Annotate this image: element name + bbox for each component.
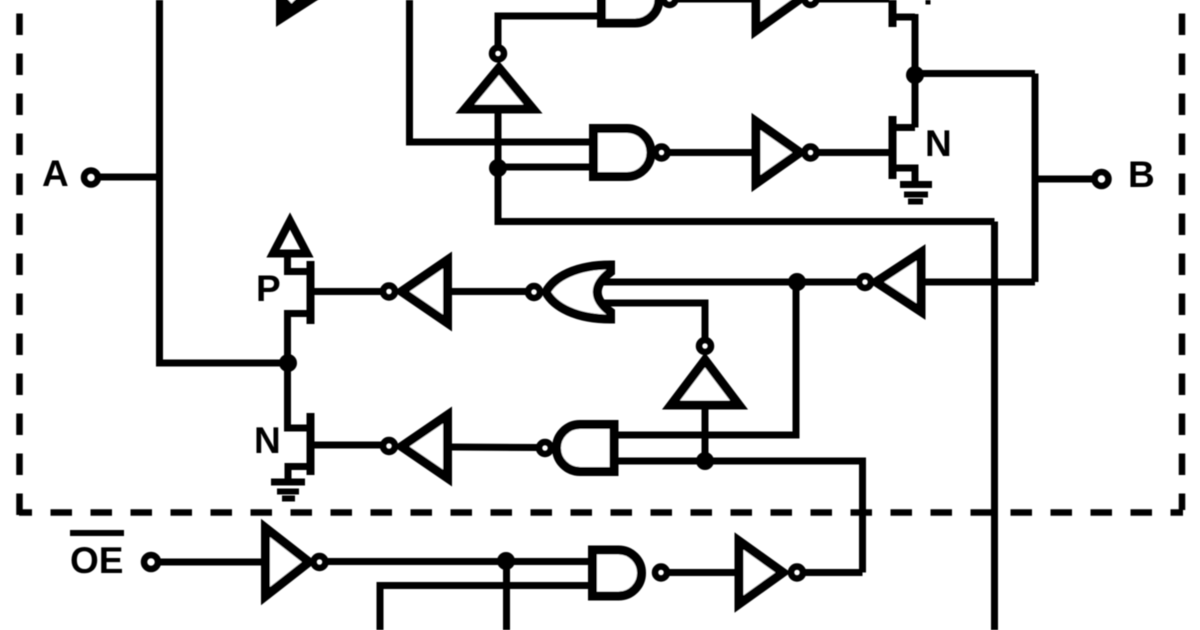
wire to NAND G3 top input <box>406 139 594 146</box>
wire B column vertical <box>1032 74 1039 283</box>
buffer remnant above (cut off) filled wedge <box>277 0 319 25</box>
buffer U6 output bubble <box>805 0 817 5</box>
wire P gate lead <box>314 288 381 295</box>
NAND gate G5 (OE path) body <box>593 550 642 596</box>
junction U2 input on NAND lower feed <box>696 452 714 470</box>
buffer remnant white interior notch <box>288 0 297 4</box>
dashed box border left side <box>16 14 23 516</box>
wire U4 output up and right to top NAND <box>498 16 600 45</box>
node OE terminal bubble <box>144 555 158 569</box>
transistor P (B-side) label remnant <box>926 0 931 5</box>
NAND gate G4 output bubble <box>664 0 676 5</box>
NOR gate G1 (faces left) output bubble <box>528 286 540 298</box>
wire G2 bottom input from OE loop <box>614 461 863 573</box>
transistor P (B-side) gate bar (cut off) <box>889 0 897 27</box>
wire G1 top input from junction <box>600 279 858 286</box>
wire long vertical B-side feed to bottom <box>991 222 998 630</box>
junction B-side common node <box>906 66 924 84</box>
NAND gate G3 (A to B path) body <box>594 129 652 177</box>
wire U6 output to P(B) gate <box>819 0 889 3</box>
inverter U1 triangle <box>402 260 448 323</box>
wire A terminal to input column <box>98 174 162 181</box>
svg-text:N: N <box>925 123 952 164</box>
dashed box border right side <box>1179 14 1186 511</box>
VCC arrow symbol above P transistor <box>273 221 307 254</box>
wire node down to N(B) drain <box>896 75 915 128</box>
wire VCC arrow stem to P source <box>284 253 310 272</box>
wire top-left vertical feed <box>406 0 413 142</box>
svg-text:P: P <box>256 268 281 309</box>
wire long feed down and right to B-side vertical <box>498 168 995 222</box>
inverter U7 (B to A path, faces left) bubble <box>859 276 871 288</box>
buffer U8 (OE, faces right) triangle <box>266 528 310 596</box>
wire junction down (cut off) <box>503 561 510 630</box>
wire A input vertical column <box>156 0 163 363</box>
wire U1 input from NOR output <box>450 288 527 295</box>
wire U7 input from B column <box>923 279 1035 286</box>
buffer U2 (up-pointing, middle) bubble <box>699 340 711 352</box>
junction U4 input node <box>489 159 507 177</box>
buffer U9 output bubble <box>791 567 803 579</box>
wire U3 input from NAND output <box>450 444 538 452</box>
wire G5 output to buffer U9 <box>668 569 741 576</box>
wire to NAND G3 bottom input <box>498 164 594 171</box>
inverter U3 triangle <box>402 415 448 478</box>
svg-text:N: N <box>254 420 281 461</box>
buffer U4 (up-pointing, top) bubble <box>492 48 504 60</box>
wire G2 top input from junction column <box>614 282 796 435</box>
svg-text:B: B <box>1128 154 1155 195</box>
wire to B terminal <box>1035 176 1093 183</box>
wire OE terminal to buffer U8 <box>158 559 266 566</box>
svg-text:A: A <box>42 153 69 194</box>
wire U9 output to G2 lower feed <box>805 569 863 576</box>
dashed box border bottom side <box>19 509 1183 516</box>
transistor N (B-side) channel bar <box>889 116 897 179</box>
node A terminal bubble <box>84 171 98 185</box>
inverter U3 (drives N gate, faces left) bubble <box>383 440 395 452</box>
buffer U9 (faces right) triangle <box>739 541 783 604</box>
NAND gate G4 (top, cut off) body <box>602 0 660 23</box>
transistor N (A-side) channel bar <box>307 413 315 475</box>
wire node to B column <box>915 70 1035 77</box>
wire P(B) drain lead down to node <box>912 14 919 75</box>
wire G4 output to buffer U6 <box>676 0 760 3</box>
wire N source stub to ground <box>288 467 310 482</box>
wire A column to pass-FET node <box>156 360 288 367</box>
ground symbol (A-side) <box>271 479 305 486</box>
wire U8 output to NAND G5 <box>328 558 596 565</box>
node OE label overbar <box>70 530 124 536</box>
buffer U2 triangle <box>671 360 739 405</box>
buffer U8 output bubble <box>314 556 326 568</box>
wire N drain stub <box>284 425 310 432</box>
inverter U7 triangle <box>876 253 921 312</box>
junction A pass-FET common node <box>279 354 297 372</box>
wire U5 output to N(B) gate <box>819 149 889 156</box>
wire U2 input vertical <box>702 409 709 461</box>
wire U4 input vertical <box>495 113 502 168</box>
buffer U4 triangle <box>465 68 533 109</box>
junction on B-side feedback at NOR input <box>788 273 806 291</box>
wire N(B) source stub to ground <box>896 168 915 184</box>
junction OE line tap <box>497 552 515 570</box>
wire P drain stub <box>284 310 310 317</box>
buffer U6 (top, cut off) triangle <box>756 0 800 31</box>
ground symbol (B-side) <box>900 181 932 188</box>
wire G1 bottom input <box>600 303 705 339</box>
inverter U1 (drives P gate, faces left) bubble <box>383 286 395 298</box>
NAND gate G5 output bubble <box>655 567 667 579</box>
node B terminal bubble <box>1095 172 1109 186</box>
buffer U5 output bubble <box>805 147 817 159</box>
wire P(B) drain stub <box>896 14 915 21</box>
NAND gate G2 (faces left) output bubble <box>539 442 551 454</box>
wire NAND G5 lower input loop (cut off) <box>380 586 596 630</box>
wire P drain to N drain through node <box>284 314 291 429</box>
buffer U5 (faces right) triangle <box>756 122 800 184</box>
svg-text:OE: OE <box>70 540 123 581</box>
NAND gate G2 body <box>557 425 615 472</box>
wire G3 output to buffer U5 <box>668 149 756 156</box>
wire N gate lead <box>314 442 381 449</box>
transistor P (A-side) channel bar <box>307 261 315 324</box>
NOR gate G1 body <box>546 265 611 319</box>
NAND gate G3 output bubble <box>656 147 668 159</box>
